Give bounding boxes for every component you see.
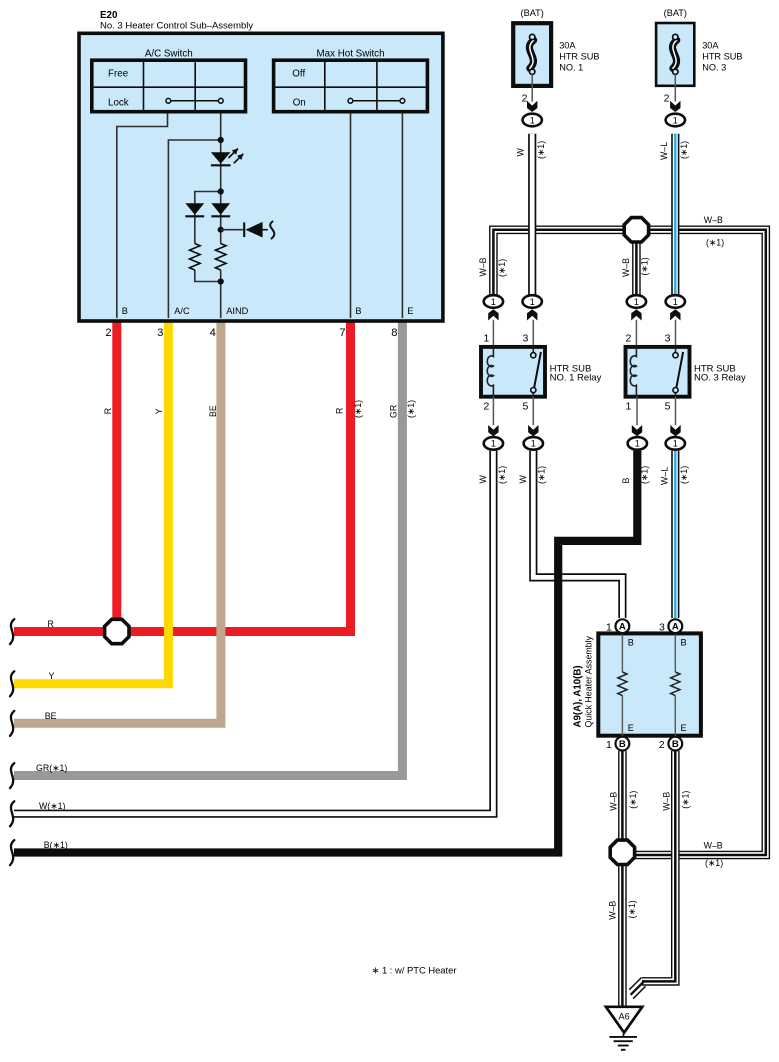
svg-text:3: 3 — [522, 332, 528, 344]
svg-text:2: 2 — [659, 739, 665, 751]
svg-text:B(∗1): B(∗1) — [44, 840, 68, 850]
svg-text:B: B — [621, 478, 631, 484]
svg-text:Y: Y — [49, 671, 55, 681]
svg-text:(∗1): (∗1) — [681, 791, 691, 809]
svg-text:(∗1): (∗1) — [628, 791, 638, 809]
svg-text:Max Hot Switch: Max Hot Switch — [316, 49, 384, 60]
svg-text:1: 1 — [606, 621, 612, 633]
svg-text:1: 1 — [634, 297, 639, 307]
svg-text:W(∗1): W(∗1) — [39, 801, 65, 811]
svg-text:Y: Y — [154, 408, 164, 414]
svg-text:B: B — [672, 739, 679, 750]
svg-text:1: 1 — [673, 297, 678, 307]
svg-text:GR(∗1): GR(∗1) — [36, 763, 67, 773]
svg-text:B: B — [355, 306, 361, 316]
svg-text:4: 4 — [210, 327, 216, 339]
svg-text:A6: A6 — [618, 1012, 629, 1022]
svg-text:2: 2 — [105, 327, 111, 339]
svg-text:(∗1): (∗1) — [497, 259, 507, 277]
svg-text:(BAT): (BAT) — [664, 8, 687, 18]
svg-text:Off: Off — [292, 68, 305, 79]
svg-text:No. 3 Heater Control Sub–Assem: No. 3 Heater Control Sub–Assembly — [100, 21, 253, 32]
svg-text:B: B — [122, 306, 128, 316]
svg-text:E: E — [628, 723, 634, 733]
svg-text:E: E — [407, 306, 413, 316]
svg-text:1: 1 — [531, 439, 536, 449]
svg-text:(∗1): (∗1) — [536, 466, 546, 484]
svg-text:(∗1): (∗1) — [497, 466, 507, 484]
svg-text:W–B: W–B — [608, 901, 618, 920]
svg-text:B: B — [628, 638, 634, 648]
svg-text:W–B: W–B — [704, 840, 723, 850]
svg-text:E20: E20 — [100, 10, 118, 21]
svg-text:NO. 1: NO. 1 — [559, 63, 583, 73]
svg-text:Quick Heater Assembly: Quick Heater Assembly — [583, 635, 593, 727]
svg-text:(BAT): (BAT) — [521, 8, 544, 18]
svg-text:A/C: A/C — [174, 306, 190, 316]
svg-text:R: R — [103, 408, 113, 414]
svg-text:1: 1 — [491, 297, 496, 307]
svg-text:W–B: W–B — [621, 258, 631, 277]
svg-text:1: 1 — [635, 439, 640, 449]
svg-text:E: E — [681, 723, 687, 733]
svg-text:7: 7 — [339, 327, 345, 339]
svg-text:(∗1): (∗1) — [705, 858, 723, 868]
svg-text:3: 3 — [157, 327, 163, 339]
svg-text:1: 1 — [606, 739, 612, 751]
svg-text:(∗1): (∗1) — [679, 141, 689, 159]
svg-text:3: 3 — [665, 332, 671, 344]
svg-text:30A: 30A — [559, 40, 576, 50]
svg-text:NO. 3 Relay: NO. 3 Relay — [694, 373, 746, 384]
svg-text:A: A — [672, 622, 679, 633]
svg-text:1: 1 — [530, 115, 535, 125]
svg-text:(∗1): (∗1) — [679, 466, 689, 484]
svg-text:(∗1): (∗1) — [353, 400, 363, 418]
svg-text:8: 8 — [391, 327, 397, 339]
svg-text:(∗1): (∗1) — [536, 141, 546, 159]
svg-text:NO. 3: NO. 3 — [702, 63, 726, 73]
svg-text:2: 2 — [483, 401, 489, 413]
svg-text:2: 2 — [522, 92, 528, 104]
svg-text:W–B: W–B — [661, 792, 671, 811]
svg-text:3: 3 — [659, 621, 665, 633]
svg-text:(∗1): (∗1) — [706, 237, 724, 247]
svg-text:On: On — [293, 98, 306, 109]
svg-text:Free: Free — [108, 68, 129, 79]
svg-text:GR: GR — [389, 405, 399, 418]
svg-text:30A: 30A — [702, 40, 719, 50]
svg-text:NO. 1 Relay: NO. 1 Relay — [550, 373, 602, 384]
svg-text:BE: BE — [45, 711, 57, 721]
svg-text:1: 1 — [483, 332, 489, 344]
svg-text:AIND: AIND — [226, 306, 248, 316]
svg-text:1: 1 — [530, 297, 535, 307]
svg-text:B: B — [681, 638, 687, 648]
svg-text:HTR SUB: HTR SUB — [702, 52, 742, 62]
svg-text:W–L: W–L — [660, 467, 670, 485]
svg-text:HTR SUB: HTR SUB — [559, 52, 599, 62]
svg-text:W: W — [518, 475, 528, 484]
svg-text:(∗1): (∗1) — [639, 466, 649, 484]
svg-text:1: 1 — [491, 439, 496, 449]
svg-text:1: 1 — [673, 439, 678, 449]
svg-text:1: 1 — [673, 115, 678, 125]
svg-text:A/C Switch: A/C Switch — [145, 49, 193, 60]
svg-text:A9(A), A10(B): A9(A), A10(B) — [572, 665, 583, 727]
svg-text:2: 2 — [626, 332, 632, 344]
svg-text:A: A — [619, 622, 626, 633]
svg-text:2: 2 — [664, 92, 670, 104]
svg-text:(∗1): (∗1) — [639, 257, 649, 275]
svg-text:BE: BE — [208, 405, 218, 417]
svg-text:5: 5 — [522, 401, 528, 413]
svg-text:Lock: Lock — [108, 98, 129, 109]
svg-text:(∗1): (∗1) — [627, 900, 637, 918]
svg-text:W–L: W–L — [659, 142, 669, 160]
svg-text:∗ 1 : w/ PTC Heater: ∗ 1 : w/ PTC Heater — [372, 964, 457, 975]
svg-text:5: 5 — [665, 401, 671, 413]
svg-text:(∗1): (∗1) — [406, 400, 416, 418]
svg-text:W: W — [478, 475, 488, 484]
svg-text:W–B: W–B — [478, 257, 488, 276]
svg-text:W–B: W–B — [704, 215, 723, 225]
svg-text:W: W — [516, 148, 526, 157]
svg-text:R: R — [335, 408, 345, 414]
svg-text:1: 1 — [626, 401, 632, 413]
svg-text:R: R — [48, 619, 54, 629]
svg-text:W–B: W–B — [609, 792, 619, 811]
svg-text:B: B — [619, 739, 626, 750]
